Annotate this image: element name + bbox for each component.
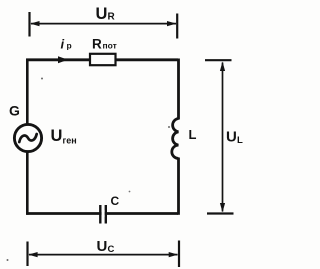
wire right upper <box>177 59 180 120</box>
dimension UL arrowhead top <box>220 62 225 72</box>
capacitor C plate right <box>105 205 107 224</box>
dimension UC tick left <box>26 242 28 267</box>
svg-text:L: L <box>189 127 197 142</box>
svg-text:i: i <box>61 37 65 52</box>
dimension UC arrowhead right <box>169 252 178 257</box>
dimension UC arrowhead left <box>28 252 37 257</box>
dimension UL arrowhead bottom <box>220 203 225 212</box>
svg-text:р: р <box>67 41 72 51</box>
capacitor C plate left <box>99 205 101 224</box>
dimension UR arrowhead left <box>30 21 39 26</box>
wire left <box>26 59 29 215</box>
svg-text:ген: ген <box>63 136 77 146</box>
dimension UC line <box>29 254 178 256</box>
wire right lower <box>177 158 180 215</box>
dimension UR line <box>31 23 176 25</box>
dimension UL tick top <box>205 59 232 61</box>
dimension UL line <box>222 63 224 212</box>
svg-text:U: U <box>226 129 237 146</box>
wire top <box>26 58 178 61</box>
svg-text:U: U <box>51 127 63 145</box>
capacitor gap mask <box>102 210 105 217</box>
dimension UR arrowhead right <box>167 21 176 26</box>
wire bottom <box>26 212 178 215</box>
svg-text:U: U <box>96 5 108 23</box>
generator sine symbol <box>19 134 36 142</box>
generator G circle <box>14 124 41 151</box>
dimension UR tick left <box>28 12 30 37</box>
svg-text:пот: пот <box>103 41 117 51</box>
current arrow ip <box>58 56 68 63</box>
dimension UC tick right <box>178 241 180 268</box>
svg-text:C: C <box>111 194 120 208</box>
dimension UL tick bottom <box>207 212 234 214</box>
resistor Rпот <box>90 54 116 65</box>
svg-text:R: R <box>108 12 116 23</box>
speck noise dots <box>41 78 43 80</box>
svg-text:U: U <box>97 238 108 255</box>
dimension UR tick right <box>176 14 178 39</box>
svg-text:G: G <box>9 103 20 119</box>
svg-text:R: R <box>92 37 102 52</box>
svg-text:C: C <box>108 244 115 255</box>
svg-text:L: L <box>237 135 243 146</box>
inductor L <box>172 119 179 159</box>
